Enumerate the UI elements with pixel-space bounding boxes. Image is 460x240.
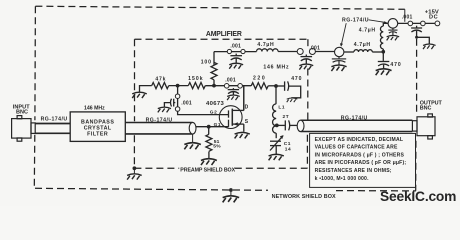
svg-text:L1: L1 xyxy=(278,105,285,111)
svg-text:47k: 47k xyxy=(155,77,166,83)
svg-text:.001: .001 xyxy=(402,15,413,21)
svg-text:EXCEPT AS INDICATED, DECIMAL: EXCEPT AS INDICATED, DECIMAL xyxy=(315,137,404,143)
svg-text:.001: .001 xyxy=(181,100,192,106)
svg-text:SeekIC.com: SeekIC.com xyxy=(380,189,456,204)
svg-text:RG-174/U: RG-174/U xyxy=(41,117,68,123)
svg-text:.001: .001 xyxy=(225,78,236,84)
svg-text:VALUES OF CAPACITANCE ARE: VALUES OF CAPACITANCE ARE xyxy=(315,145,398,151)
svg-text:RG-174/U: RG-174/U xyxy=(146,118,173,124)
svg-text:2T: 2T xyxy=(283,114,290,120)
svg-text:470: 470 xyxy=(291,76,302,82)
svg-text:DC: DC xyxy=(429,14,438,20)
svg-text:NETWORK SHIELD BOX: NETWORK SHIELD BOX xyxy=(272,194,336,200)
svg-text:150k: 150k xyxy=(188,76,204,82)
svg-text:D: D xyxy=(245,105,249,111)
svg-text:5%: 5% xyxy=(213,144,221,150)
svg-text:G1: G1 xyxy=(214,122,222,128)
svg-text:FILTER: FILTER xyxy=(87,131,108,137)
svg-text:4.7μH: 4.7μH xyxy=(354,42,371,48)
svg-text:RG-174/U: RG-174/U xyxy=(342,18,369,24)
svg-text:ARE IN PICOFARADS ( pF OR μμF): ARE IN PICOFARADS ( pF OR μμF); xyxy=(315,160,407,166)
svg-text:14: 14 xyxy=(285,147,291,153)
svg-text:S: S xyxy=(245,119,249,125)
svg-text:AMPLIFIER: AMPLIFIER xyxy=(206,31,242,38)
svg-text:470: 470 xyxy=(390,62,401,68)
svg-text:BNC: BNC xyxy=(420,105,432,111)
svg-text:PREAMP SHIELD BOX: PREAMP SHIELD BOX xyxy=(180,167,235,173)
svg-text:G2: G2 xyxy=(210,110,218,116)
svg-text:146 MHz: 146 MHz xyxy=(263,64,289,70)
svg-text:220: 220 xyxy=(253,76,266,82)
svg-text:40673: 40673 xyxy=(206,101,225,107)
svg-text:RESISTANCES ARE IN OHMS;: RESISTANCES ARE IN OHMS; xyxy=(315,168,392,174)
svg-text:BNC: BNC xyxy=(16,110,28,116)
svg-text:C1: C1 xyxy=(284,141,291,147)
svg-text:.001: .001 xyxy=(309,45,320,51)
svg-text:.001: .001 xyxy=(230,43,241,49)
svg-text:k •1000, M•1 000 000.: k •1000, M•1 000 000. xyxy=(315,176,369,182)
svg-text:4.7μH: 4.7μH xyxy=(257,42,274,48)
svg-text:IN MICROFARADS ( μF ) ; OTHERS: IN MICROFARADS ( μF ) ; OTHERS xyxy=(315,152,405,158)
svg-text:100: 100 xyxy=(201,60,212,66)
svg-text:4.7μH: 4.7μH xyxy=(359,28,376,34)
svg-text:146 MHz: 146 MHz xyxy=(84,105,105,111)
svg-text:RG-174/U: RG-174/U xyxy=(341,116,368,122)
